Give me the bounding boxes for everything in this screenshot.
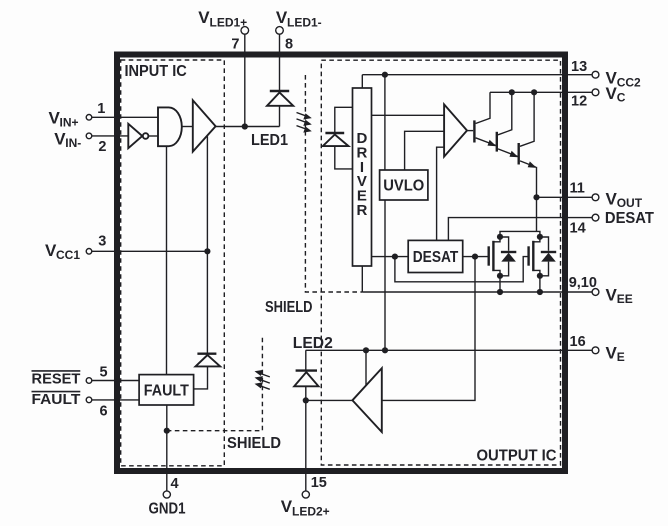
- svg-text:V: V: [198, 8, 210, 27]
- svg-text:12: 12: [571, 94, 587, 110]
- svg-text:LED1: LED1: [251, 132, 288, 149]
- wire DRIVER bottom to VEE rail: [361, 266, 363, 292]
- wire amp A3 output to LED2: [306, 399, 353, 401]
- wire FAULT box bottom to GND1: [166, 405, 168, 491]
- wire AND output: [182, 126, 193, 128]
- DRIVER box: [353, 88, 372, 266]
- wire DRIVER to DESAT left node: [372, 256, 409, 258]
- svg-text:V: V: [606, 84, 618, 103]
- wire DRIVER output to amp: [372, 114, 445, 116]
- node VEE M1 junction: [497, 289, 503, 295]
- wire M2 source to VEE rail: [539, 276, 541, 292]
- wire gate node to feedback amp A3: [382, 257, 475, 401]
- UVLO box: [380, 170, 428, 200]
- svg-text:LED1+: LED1+: [210, 15, 248, 29]
- wire Q3 emitter to VOUT node: [536, 167, 538, 232]
- svg-text:GND1: GND1: [149, 501, 186, 518]
- svg-text:13: 13: [571, 59, 587, 75]
- svg-text:16: 16: [570, 334, 586, 350]
- wire M1 source to VEE rail: [499, 276, 501, 292]
- node M1 drain junction: [497, 234, 503, 240]
- svg-text:9,10: 9,10: [569, 275, 597, 291]
- MOSFET M2: [529, 237, 540, 276]
- svg-text:V: V: [281, 497, 293, 516]
- wire buffer bottom to VCC1 node and diode: [206, 136, 208, 354]
- label DRIVER vertical: [356, 130, 367, 219]
- svg-text:CC1: CC1: [56, 248, 80, 262]
- shield dashed line center: [305, 75, 362, 292]
- pin 5 terminal RESET: [86, 378, 139, 384]
- svg-text:4: 4: [171, 476, 179, 492]
- svg-text:IN+: IN+: [60, 116, 79, 130]
- svg-text:UVLO: UVLO: [383, 178, 424, 195]
- diode D4 across M2: [540, 237, 556, 276]
- OUTPUT IC dashed box: [321, 60, 560, 465]
- node DESAT right junction: [472, 254, 478, 260]
- svg-text:R: R: [356, 202, 367, 219]
- transistor Q1: [474, 92, 496, 146]
- svg-text:RESET: RESET: [32, 371, 81, 387]
- label VEE: [606, 286, 633, 307]
- pin 13 terminal VCC2: [592, 71, 599, 78]
- svg-text:LED1-: LED1-: [287, 15, 322, 29]
- svg-text:3: 3: [98, 234, 106, 250]
- node Q2 collector junction: [509, 89, 515, 95]
- wire M1 drain rail to VOUT: [500, 231, 540, 236]
- wire UVLO bottom to VE rail: [384, 200, 386, 350]
- label RESET with overline: [32, 371, 81, 388]
- svg-text:DESAT: DESAT: [605, 210, 654, 227]
- wire VE rail pin 16: [306, 349, 592, 351]
- svg-text:15: 15: [311, 475, 327, 491]
- package outline border: [117, 55, 565, 472]
- svg-text:LED2: LED2: [293, 335, 333, 352]
- wire DESAT to amp lower input: [437, 147, 445, 240]
- svg-text:8: 8: [285, 37, 293, 53]
- transistor Q2: [497, 92, 519, 157]
- svg-text:6: 6: [100, 404, 108, 420]
- wire VCC2 rail pin 13: [362, 74, 592, 76]
- pin 12 terminal VC: [592, 89, 599, 96]
- INPUT IC dashed box: [121, 60, 225, 466]
- pin 14 terminal DESAT: [592, 214, 599, 221]
- svg-text:FAULT: FAULT: [32, 392, 81, 408]
- svg-text:11: 11: [570, 181, 585, 197]
- pin 11 terminal VOUT: [592, 194, 599, 201]
- label VLED1-: [276, 8, 322, 30]
- label VLED1+: [198, 8, 247, 30]
- wire amp output to Q1 base: [467, 130, 473, 132]
- node M1 source junction: [497, 273, 503, 279]
- svg-text:OUT: OUT: [617, 196, 643, 210]
- pin 6 terminal FAULT: [86, 397, 139, 403]
- svg-text:V: V: [606, 286, 618, 305]
- wire VEE rail pins 9 10: [362, 291, 592, 293]
- svg-text:E: E: [617, 350, 625, 364]
- transistor Q3: [519, 92, 537, 168]
- pin 8 terminal VLED1-: [276, 27, 284, 91]
- pin 9 10 terminal VEE: [592, 289, 599, 296]
- op-amp A2 output driver: [444, 104, 467, 156]
- svg-text:C: C: [617, 91, 626, 105]
- wire DESAT output to MOSFET M1 gate: [463, 256, 488, 258]
- pin 1 terminal VIN+: [86, 115, 158, 121]
- svg-text:IN-: IN-: [65, 136, 81, 150]
- svg-text:DESAT: DESAT: [413, 249, 459, 266]
- inverter on VIN-: [128, 124, 158, 148]
- light arrows LED1: [297, 113, 312, 133]
- node DESAT left junction: [392, 254, 398, 260]
- pin 7 terminal VLED1+: [241, 27, 249, 127]
- pin 3 terminal VCC1: [86, 249, 207, 255]
- svg-text:FAULT: FAULT: [144, 382, 189, 399]
- node M2 source junction: [537, 273, 543, 279]
- FAULT logic box: [139, 375, 194, 405]
- label VIN-: [54, 130, 81, 151]
- node VE amp junction: [363, 347, 369, 353]
- diode D3 across M1: [500, 237, 516, 276]
- buffer amplifier A1: [193, 100, 216, 151]
- label FAULT with overline: [32, 392, 81, 408]
- label VOUT: [606, 190, 643, 211]
- svg-text:CC2: CC2: [617, 75, 641, 89]
- pin 2 terminal VIN-: [86, 133, 128, 139]
- wire DESAT pin 14: [448, 218, 592, 241]
- node M2 drain junction: [537, 234, 543, 240]
- wire AND gate bottom to FAULT box: [166, 146, 168, 374]
- node VCC1 junction: [204, 248, 210, 254]
- svg-text:14: 14: [570, 220, 586, 236]
- wire VE rail to amp A3 top: [365, 350, 367, 385]
- label VLED2+: [281, 497, 330, 519]
- pin 4 terminal GND1: [163, 491, 170, 498]
- svg-text:5: 5: [100, 365, 108, 381]
- wire VOUT pin 11: [537, 196, 593, 198]
- node VCC2 UVLO junction: [382, 72, 388, 78]
- svg-text:LED2+: LED2+: [292, 505, 330, 519]
- svg-text:SHIELD: SHIELD: [227, 435, 281, 452]
- wire VC rail pin 12: [490, 91, 592, 93]
- pin 16 terminal VE: [592, 347, 599, 354]
- wire buffer output to LED1 node: [216, 126, 280, 128]
- op-amp A3 feedback driver: [352, 368, 381, 432]
- LED2 diode: [294, 350, 318, 400]
- wire DESAT left node to MOSFET M2 gate: [395, 257, 528, 282]
- svg-text:2: 2: [98, 139, 106, 155]
- wire DRIVER top to VCC2 rail: [361, 75, 363, 88]
- label VC: [606, 84, 626, 105]
- node GND shield junction: [164, 428, 170, 434]
- wire UVLO top to VCC2 rail: [384, 75, 386, 170]
- svg-text:7: 7: [231, 37, 239, 53]
- diode D1 feedback detector above FAULT: [194, 354, 221, 389]
- node VEE M2 junction: [537, 289, 543, 295]
- svg-text:V: V: [606, 190, 618, 209]
- label VCC1: [45, 241, 80, 262]
- node VOUT junction: [533, 194, 539, 200]
- node LED2 junction: [303, 397, 309, 403]
- svg-text:INPUT IC: INPUT IC: [125, 63, 188, 80]
- pin 15 terminal VLED2+: [302, 491, 309, 498]
- label VCC2: [606, 69, 642, 90]
- MOSFET M1: [489, 237, 500, 276]
- shield dashed line input side: [167, 335, 263, 431]
- label VIN+: [49, 108, 79, 129]
- light arrows LED2: [255, 370, 270, 389]
- svg-text:OUTPUT IC: OUTPUT IC: [477, 447, 557, 464]
- svg-text:SHIELD: SHIELD: [265, 299, 313, 316]
- AND gate U1: [158, 107, 182, 146]
- DESAT box: [408, 240, 463, 272]
- wire UVLO to amp: [405, 131, 445, 170]
- node Q3 collector junction: [531, 89, 537, 95]
- svg-text:EE: EE: [617, 292, 633, 306]
- node LED1 junction: [242, 123, 248, 129]
- svg-text:V: V: [606, 344, 618, 363]
- svg-text:1: 1: [97, 101, 105, 117]
- label VE: [606, 344, 625, 365]
- node VE UVLO junction: [382, 347, 388, 353]
- LED1 diode: [267, 91, 293, 127]
- wire LED2 to pin 15: [305, 400, 307, 491]
- photodiode D2 detector: [323, 107, 353, 169]
